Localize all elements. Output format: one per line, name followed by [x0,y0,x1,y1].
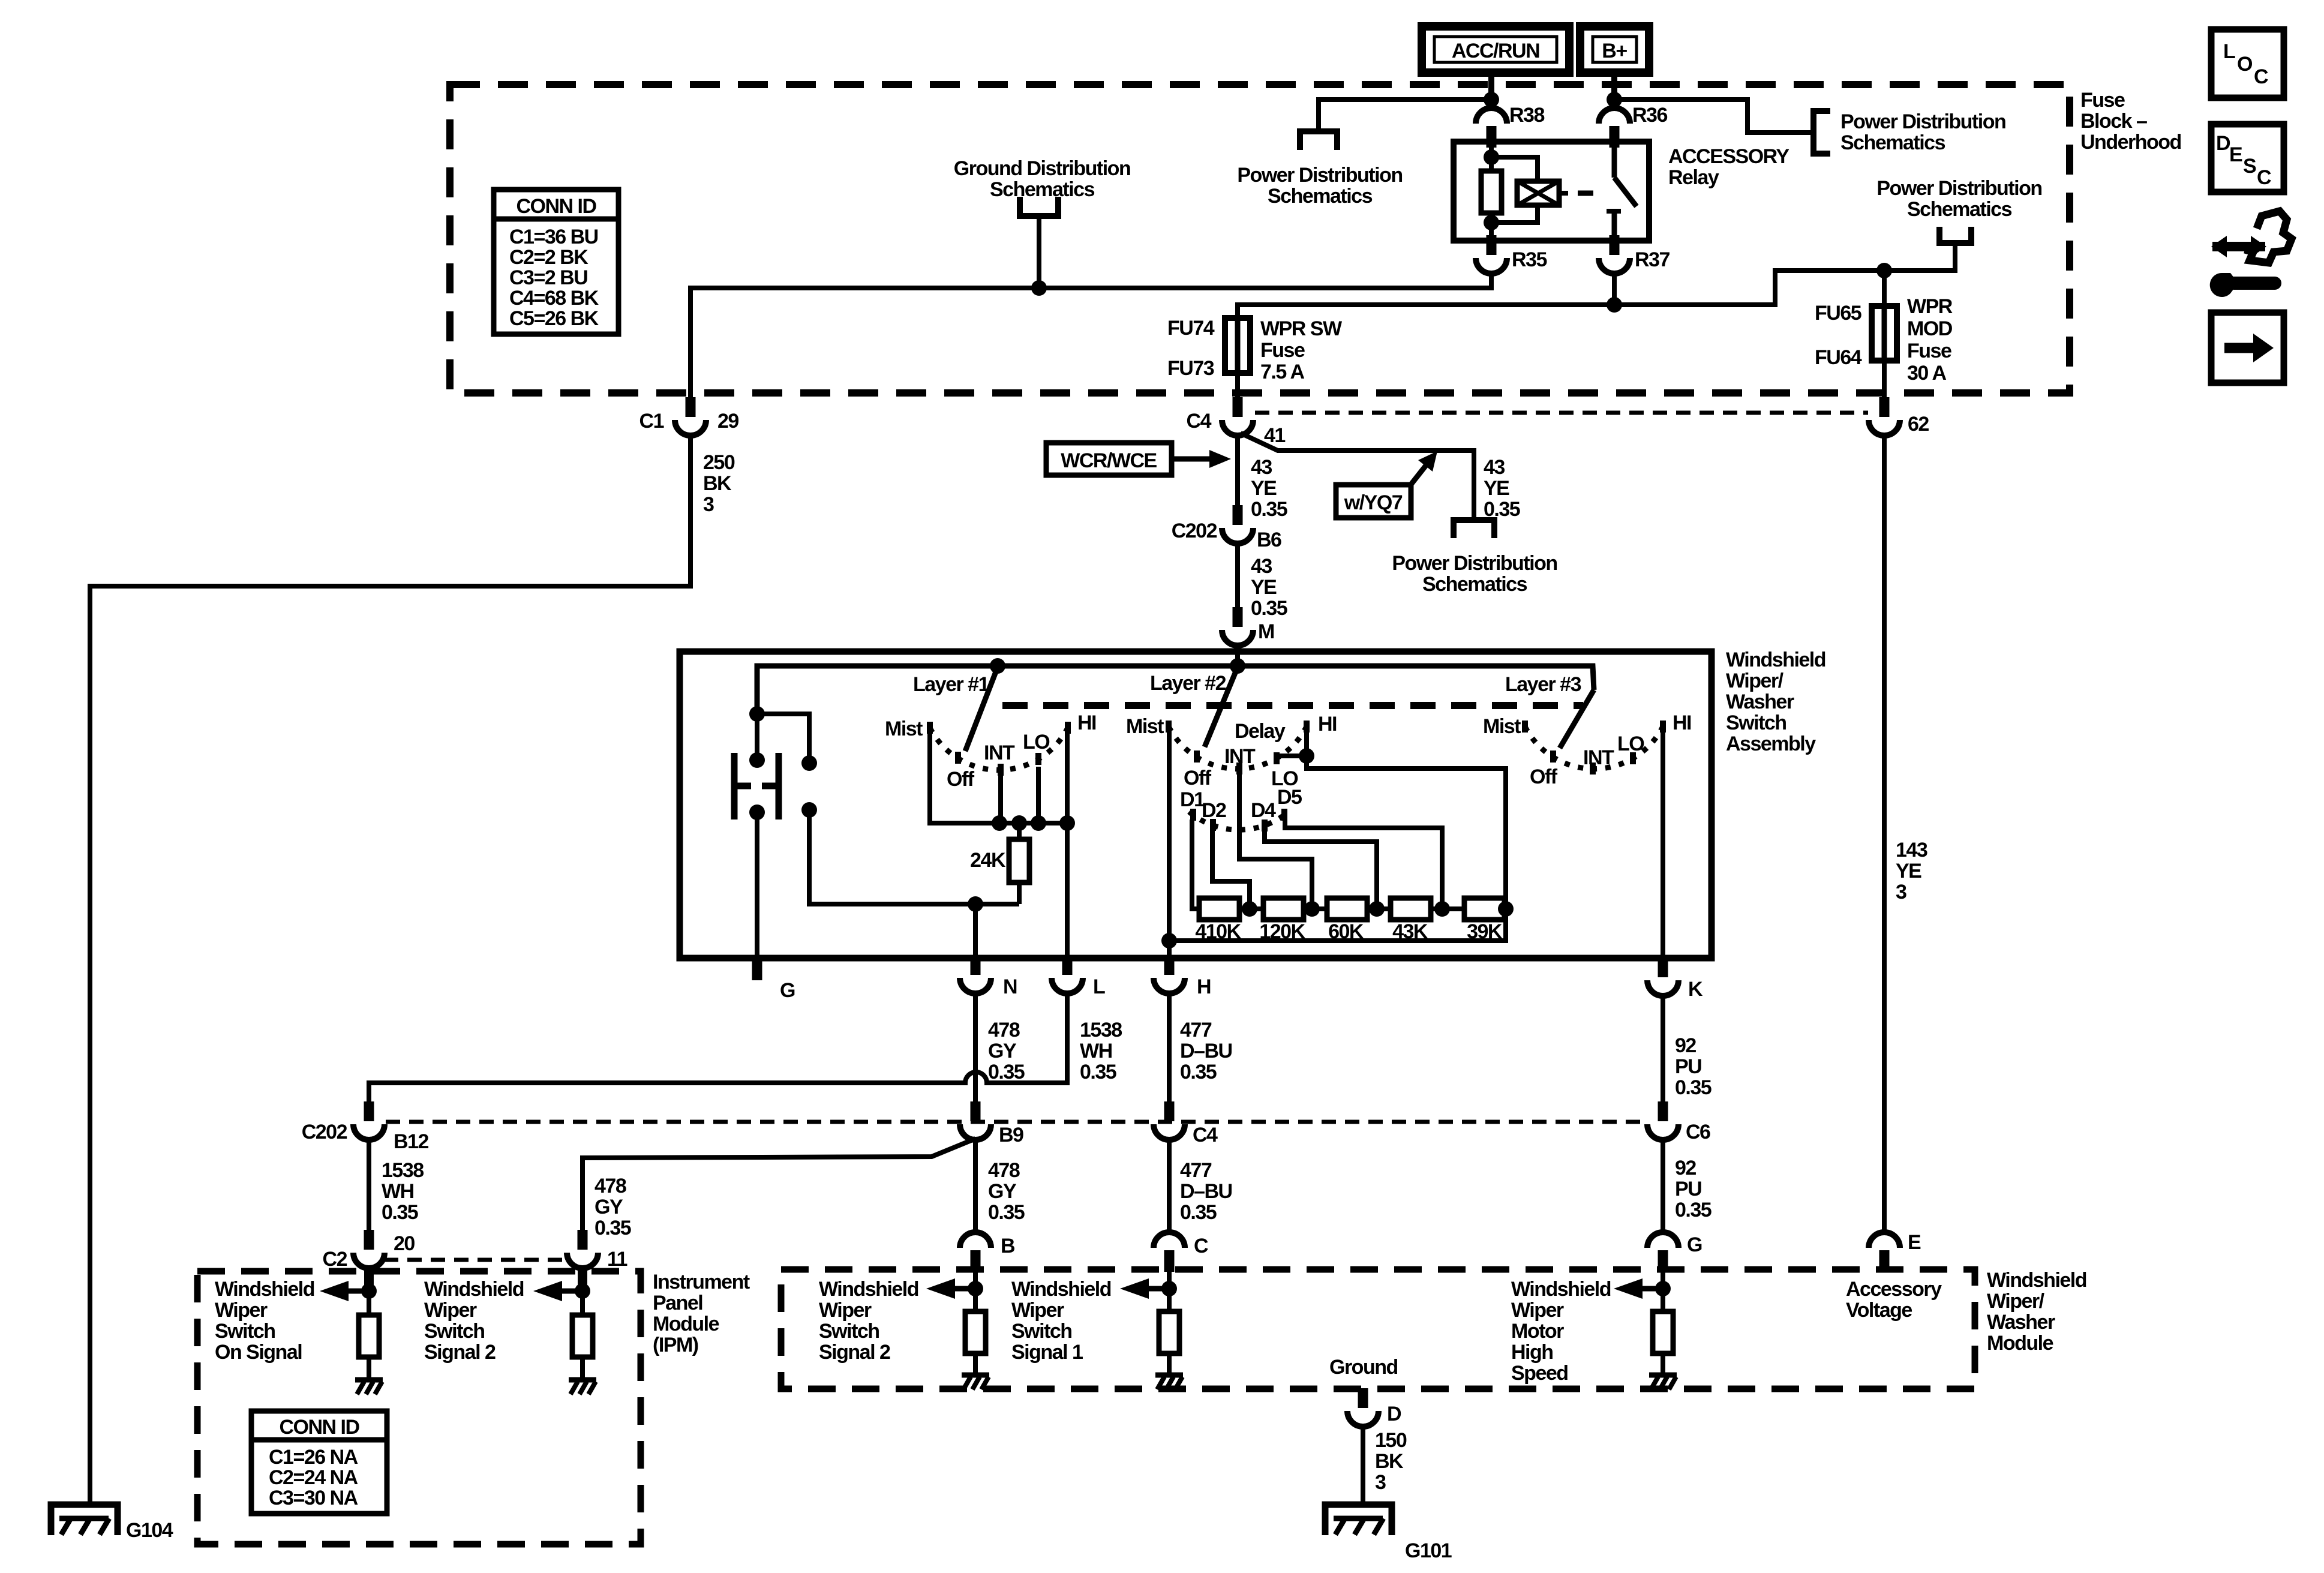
wire 92 PU C6 to G [1661,1140,1665,1233]
svg-text:0.35: 0.35 [988,1061,1025,1083]
svg-text:Schematics: Schematics [990,178,1095,201]
CONN ID table (fuse block) [494,190,618,334]
wire chain seg4 [1431,906,1464,911]
label accessory voltage [1846,1278,1942,1322]
pin D from module [1358,1389,1368,1407]
svg-text:60K: 60K [1328,920,1364,943]
svg-text:L: L [2223,40,2235,63]
layer2 rotary arc [1169,727,1307,769]
node washer contact top-right [801,755,817,771]
wire C2 inside IPM [367,1287,371,1315]
svg-text:H: H [1197,975,1211,998]
wire ACC/RUN to power distribution ref [1319,100,1491,131]
svg-text:92: 92 [1675,1157,1696,1179]
svg-text:Power Distribution: Power Distribution [1237,164,1402,187]
wire R37 to fuse run [1238,274,1614,318]
off-page bracket power distribution (41 branch) [1454,520,1494,538]
wire B+ feed stub [1611,73,1617,100]
wire label 92 PU 0.35 (K) [1675,1034,1712,1099]
layer2 tick D1 [1190,809,1196,821]
connector R36 [1599,108,1630,148]
reference box w/YQ7 [1336,485,1411,518]
label windshield wiper washer switch assembly [1726,649,1825,755]
svg-text:250: 250 [703,451,735,474]
wire R38 pin feed [1489,100,1494,108]
wire label 150 BK 3 [1375,1429,1407,1494]
svg-text:WCR/WCE: WCR/WCE [1061,449,1157,472]
resistor IPM input 2 [572,1315,593,1357]
svg-text:HI: HI [1673,712,1691,734]
wire R35 to C1 run [690,274,1491,397]
wire FU74 to C4 [1235,373,1240,397]
wire D5 to junction4 [1285,819,1442,909]
label layer2 INT [1224,745,1256,768]
label windshield wiper switch on signal [215,1278,314,1364]
svg-text:B6: B6 [1257,529,1281,551]
svg-text:K: K [1688,978,1703,1001]
svg-text:LO: LO [1023,731,1050,754]
windshield wiper washer module dashed box [781,1269,1975,1389]
resistor relay coil suppression [1481,171,1502,213]
svg-text:Washer: Washer [1726,691,1794,713]
layer2 delay arc [1189,812,1289,830]
svg-text:CONN ID: CONN ID [279,1416,359,1439]
svg-text:Wiper/: Wiper/ [1726,670,1784,692]
pin 11 into IPM [578,1268,587,1289]
label windshield wiper switch signal 1 (module) [1011,1278,1111,1364]
svg-text:1538: 1538 [382,1159,424,1182]
svg-text:Wiper: Wiper [819,1299,872,1322]
svg-text:Layer #2: Layer #2 [1150,672,1226,695]
svg-text:D–BU: D–BU [1180,1040,1232,1062]
relay box ACCESSORY Relay [1454,142,1649,241]
wire N to B9 [973,993,978,1101]
connector C4 pin 41 [1222,397,1253,436]
arrow WCR/WCE [1172,450,1231,468]
svg-text:478: 478 [988,1159,1020,1182]
svg-text:C4: C4 [1193,1124,1218,1146]
wire N drop [973,904,978,958]
wire M into switch box [1235,646,1240,666]
connector C202 pin B9 [960,1101,991,1140]
svg-text:Signal 1: Signal 1 [1011,1341,1083,1364]
node layer1 bus 24K [1011,815,1027,831]
connector C202 pin C6 [1647,1101,1679,1140]
resistor module G [1653,1311,1673,1353]
svg-text:C202: C202 [302,1121,347,1143]
node washer contact top-left [749,752,765,768]
svg-text:S: S [2243,155,2256,178]
connector R38 [1476,108,1507,148]
resistor module B [965,1311,986,1353]
wire D2 to junction1 [1212,829,1250,909]
svg-text:WH: WH [382,1180,414,1203]
connector line C202 dashed [386,1120,1646,1124]
node FU65 tap [1876,263,1892,278]
wire label 92 PU 0.35 (C6) [1675,1157,1712,1221]
wire R36 pin feed [1612,100,1617,108]
wire label 43 YE 0.35 (C4) [1251,456,1287,521]
node ground distribution tap [1031,280,1047,296]
svg-text:N: N [1003,975,1017,998]
connector D [1347,1388,1379,1427]
wire washer to 24K junction [809,810,1019,904]
layer3 tick INT [1590,763,1596,775]
svg-text:C2: C2 [323,1248,347,1271]
svg-text:FU64: FU64 [1815,346,1862,369]
layer1 tick Off [955,752,961,764]
label layer2 Off [1184,767,1212,789]
wire relay switch common [1612,142,1617,178]
svg-text:Signal 2: Signal 2 [819,1341,890,1364]
svg-text:Power Distribution: Power Distribution [1840,110,2005,133]
svg-text:C6: C6 [1686,1121,1710,1143]
svg-text:Schematics: Schematics [1907,198,2012,221]
layer2 tick INT [1236,763,1242,775]
svg-text:Fuse: Fuse [1260,339,1305,362]
connector N [960,955,991,993]
svg-text:Fuse: Fuse [1907,340,1951,362]
svg-text:Block –: Block – [2080,110,2147,133]
wire H to C4 [1167,993,1172,1101]
label layer1 INT [984,742,1015,764]
wire IPM resistor2 to ground [580,1357,585,1380]
resistor 24K [1009,839,1029,882]
svg-text:30 A: 30 A [1907,362,1947,385]
svg-text:GY: GY [988,1180,1017,1203]
svg-text:0.35: 0.35 [1180,1201,1217,1224]
connector C202 pin B6 [1222,505,1253,544]
label instrument panel module IPM [653,1271,750,1356]
svg-text:D–BU: D–BU [1180,1180,1232,1203]
svg-text:Relay: Relay [1668,166,1719,189]
label layer3 INT [1583,746,1614,769]
wire layer2 Mist to bus [1167,731,1172,941]
wire washer switch feed [755,714,759,760]
wire relay resistor pass [1489,157,1494,171]
wire 24K bottom [1017,882,1022,904]
svg-text:477: 477 [1180,1159,1212,1182]
wire label 477 D-BU 0.35 (H) [1180,1019,1232,1083]
svg-text:INT: INT [1583,746,1614,769]
pin G of switch assembly [752,958,762,980]
label ground (module) [1329,1356,1398,1379]
label WPR MOD fuse [1907,295,1953,385]
svg-text:Schematics: Schematics [1422,573,1527,596]
label FU74 [1167,317,1215,340]
svg-text:C1=26 NA: C1=26 NA [269,1446,358,1469]
wire relay coil branch bottom [1491,205,1538,223]
connector R35 [1476,235,1507,274]
wire relay bottom left pin [1489,223,1494,241]
wire 41 branch diagonal [1241,433,1474,520]
svg-text:410K: 410K [1195,920,1241,943]
svg-text:(IPM): (IPM) [653,1334,698,1356]
label D1 [1180,788,1205,811]
ground IPM 2 [569,1380,596,1394]
svg-text:G: G [1687,1233,1702,1256]
label Fuse Block - Underhood [2080,89,2181,154]
node C2 arrow tap [361,1283,377,1299]
svg-text:LO: LO [1617,733,1644,755]
label layer1 HI [1077,712,1096,734]
svg-text:Instrument: Instrument [653,1271,750,1293]
svg-text:Wiper: Wiper [424,1299,477,1322]
svg-text:Layer #1: Layer #1 [913,673,989,696]
svg-text:GY: GY [594,1196,623,1218]
wire IPM resistor1 to ground [367,1357,371,1380]
wire FU65 feed [1882,271,1887,306]
wire label 478 GY 0.35 (N) [988,1019,1025,1083]
svg-text:11: 11 [607,1248,627,1271]
connector H [1154,955,1185,993]
wire layer1 Mist contact [930,731,999,823]
connector B [960,1232,991,1272]
connector K [1647,957,1679,996]
svg-text:G: G [780,979,795,1002]
wire label 43 YE 0.35 (B6) [1251,555,1287,620]
label layer2 LO [1271,767,1298,790]
svg-text:Mist: Mist [885,718,923,740]
off-page bracket ground distribution [1020,197,1058,216]
svg-text:C1: C1 [639,410,664,433]
node layer2 mist bus [1161,933,1177,948]
svg-text:Module: Module [1987,1332,2053,1355]
wire 477 D-BU C4 to C [1167,1140,1172,1233]
ground module B [962,1375,989,1389]
svg-text:Windshield: Windshield [1011,1278,1111,1301]
wire layer1 switch blade [965,667,998,751]
svg-text:PU: PU [1675,1178,1701,1200]
svg-text:43K: 43K [1392,920,1428,943]
connector C202 pin C4 [1154,1101,1185,1140]
svg-text:Power Distribution: Power Distribution [1876,177,2041,200]
label D4 [1251,799,1276,822]
ground module G [1649,1375,1677,1389]
svg-text:Windshield: Windshield [1987,1269,2086,1292]
icon box DESC [2211,124,2284,192]
label power distribution schematics (right) [1840,110,2005,154]
svg-text:Windshield: Windshield [819,1278,918,1301]
svg-text:0.35: 0.35 [1080,1061,1116,1083]
svg-text:43: 43 [1484,456,1505,479]
svg-text:0.35: 0.35 [1251,498,1287,521]
svg-text:478: 478 [988,1019,1020,1041]
svg-text:R36: R36 [1632,104,1667,127]
label Layer #2 [1150,672,1226,695]
wire label 1538 WH 0.35 (L) [1080,1019,1122,1083]
svg-text:Off: Off [947,768,975,791]
svg-text:Switch: Switch [215,1320,275,1343]
svg-text:Switch: Switch [1726,712,1786,734]
node washer feed [749,706,765,722]
wire ground distribution feed [1037,216,1041,288]
connector M switch assembly [1222,607,1253,646]
svg-text:0.35: 0.35 [594,1217,631,1239]
wire module resistorG to ground [1661,1353,1665,1375]
svg-text:R38: R38 [1509,104,1544,127]
wire layer3 switch blade [1560,690,1594,748]
svg-text:HI: HI [1318,713,1337,736]
svg-text:29: 29 [717,410,738,433]
svg-text:478: 478 [594,1175,626,1197]
label windshield wiper motor high speed [1511,1278,1611,1385]
label layer1 Off [947,768,975,791]
node B arrow tap [968,1281,983,1296]
wire layer2 Mist to H [1167,941,1172,958]
svg-text:HI: HI [1077,712,1096,734]
connector E [1869,1232,1900,1272]
node chain j3 [1369,901,1385,917]
node B+ junction [1607,92,1622,107]
svg-text:Off: Off [1530,766,1558,788]
svg-text:24K: 24K [970,849,1006,872]
svg-text:C3=2 BU: C3=2 BU [509,266,587,289]
layer1 tick LO [1035,753,1041,765]
node N tap [968,896,983,912]
wire label 250 BK 3 [703,451,735,516]
wire label 43 YE 0.35 (41) [1484,456,1520,521]
label ACCESSORY Relay [1668,145,1789,189]
label layer3 Mist [1483,715,1521,738]
label 60K [1328,920,1364,943]
layer1 tick Mist [927,722,933,734]
label layer3 Off [1530,766,1558,788]
svg-text:Delay: Delay [1235,720,1286,743]
label power distribution schematics (left) [1237,164,1402,208]
connector IPM pin 11 [567,1230,598,1268]
svg-text:92: 92 [1675,1034,1696,1057]
layer3 tick HI [1660,721,1666,733]
node layer1 bus INT [992,815,1007,831]
wire label 1538 WH 0.35 (B12) [382,1159,424,1224]
svg-text:R37: R37 [1635,248,1670,271]
svg-text:Switch: Switch [819,1320,879,1343]
node chain j1 [1242,901,1257,917]
resistor 120K [1263,898,1304,920]
resistor 60K [1327,898,1367,920]
svg-text:D: D [1387,1403,1401,1425]
icon wrench/arrows [2210,211,2292,297]
svg-text:E: E [1908,1231,1921,1254]
svg-text:Schematics: Schematics [1840,131,1945,154]
wire layer2 HI wire [1169,730,1506,941]
fuse FU65 WPR MOD 30A [1872,304,1897,363]
svg-text:FU73: FU73 [1167,357,1214,380]
label layer2 HI [1318,713,1337,736]
wire 478 GY B9 to B [973,1140,978,1233]
svg-text:FU65: FU65 [1815,302,1861,325]
label power distribution schematics (41) [1392,552,1557,596]
node layer1 bus HI [1059,815,1075,831]
wire D1 to 410K [1192,819,1199,909]
svg-text:43: 43 [1251,555,1272,578]
wire relay coil branch top [1491,157,1538,181]
wire ACC/RUN feed stub [1488,73,1494,100]
svg-text:62: 62 [1908,413,1929,436]
wire relay resistor bottom [1489,213,1494,223]
label windshield wiper switch signal 2 (IPM) [424,1278,524,1364]
svg-text:0.35: 0.35 [1251,597,1287,620]
svg-text:7.5 A: 7.5 A [1260,361,1304,383]
node chain j5 [1498,901,1514,917]
svg-text:C: C [2254,65,2268,88]
label windshield wiper switch signal 2 (module) [819,1278,918,1364]
wire washer to G [755,812,759,958]
label layer1 Mist [885,718,923,740]
svg-text:Off: Off [1184,767,1212,789]
layer3 tick LO [1630,752,1636,764]
svg-text:0.35: 0.35 [382,1201,418,1224]
layer1 tick INT [998,764,1004,776]
svg-text:0.35: 0.35 [988,1201,1025,1224]
label layer3 LO [1617,733,1644,755]
power feed box B+ [1580,26,1649,73]
layer2 tick D5 [1281,809,1287,821]
svg-text:C5=26 BK: C5=26 BK [509,307,599,330]
power feed box ACC/RUN [1422,26,1569,73]
svg-text:0.35: 0.35 [1484,498,1520,521]
wire relay switch output [1612,211,1617,241]
wire K to C6 [1661,996,1665,1101]
svg-text:477: 477 [1180,1019,1212,1041]
resistor 43K [1391,898,1431,920]
svg-text:D5: D5 [1277,786,1302,809]
relay coil [1517,181,1568,205]
wire relay coil top [1489,142,1494,157]
svg-text:Wiper/: Wiper/ [1987,1290,2045,1313]
svg-text:ACC/RUN: ACC/RUN [1452,40,1539,62]
svg-text:Switch: Switch [1011,1320,1072,1343]
svg-text:BK: BK [1375,1450,1404,1473]
instrument panel module dashed box [197,1271,641,1544]
label 410K [1195,920,1241,943]
label FU65 [1815,302,1861,325]
svg-text:O: O [2237,53,2253,76]
wire 143 YE from 62 to E [1882,436,1887,1232]
svg-text:INT: INT [1224,745,1256,768]
svg-text:High: High [1511,1341,1553,1364]
node layer2 LO-HI junction [1299,748,1314,764]
label Layer #3 [1505,673,1581,696]
ground IPM 1 [355,1380,383,1394]
svg-text:Wiper: Wiper [1011,1299,1064,1322]
svg-text:E: E [2229,143,2242,166]
wire 43 YE from C4 [1235,436,1240,515]
svg-text:Wiper: Wiper [215,1299,268,1322]
layer1 rotary arc [930,728,1068,770]
layer2 tick LO [1274,752,1280,764]
svg-text:Washer: Washer [1987,1311,2055,1334]
label power distribution schematics (FU65) [1876,177,2041,221]
node relay coil top [1484,149,1499,165]
svg-text:YE: YE [1896,860,1921,882]
svg-text:Fuse: Fuse [2080,89,2125,112]
svg-text:C2=24 NA: C2=24 NA [269,1466,358,1489]
label ground distribution schematics [954,157,1130,201]
layer2 tick D2 [1210,819,1216,831]
svg-text:C202: C202 [1172,520,1217,542]
connector fuse block pin 62 [1869,397,1900,436]
svg-text:C4: C4 [1187,410,1212,433]
off-page bracket power distribution (left) [1300,131,1337,150]
svg-text:0.35: 0.35 [1675,1076,1712,1099]
svg-text:Wiper: Wiper [1511,1299,1564,1322]
svg-text:B: B [1001,1235,1015,1257]
svg-text:1538: 1538 [1080,1019,1122,1041]
svg-text:C4=68 BK: C4=68 BK [509,287,599,310]
wire FU65 to 62 [1882,361,1887,397]
